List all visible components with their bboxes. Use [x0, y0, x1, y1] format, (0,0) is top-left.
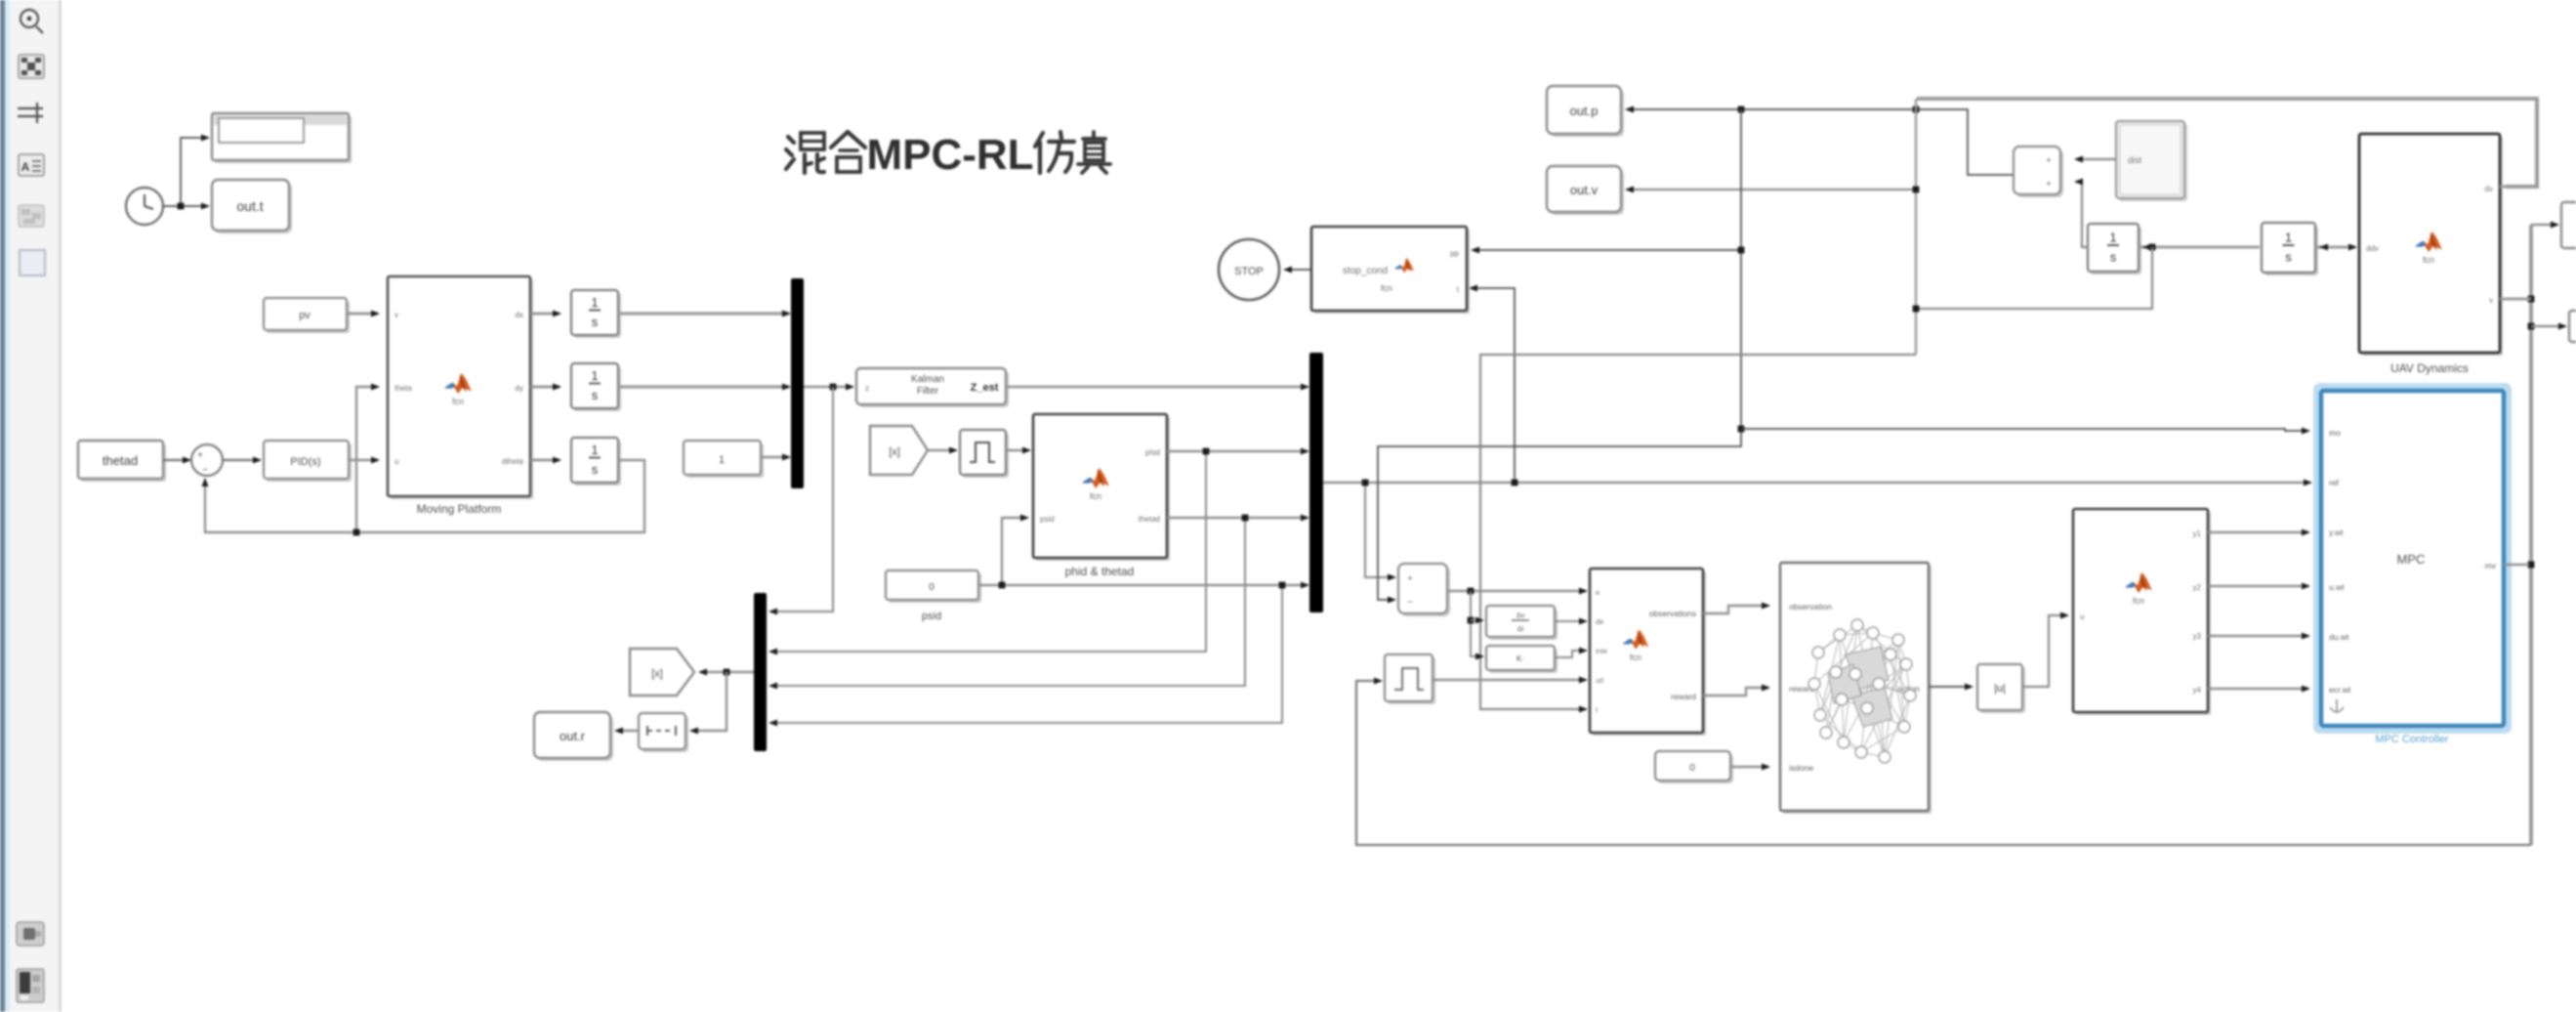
wire clock branch to display [181, 138, 208, 206]
svg-text:isdone: isdone [1789, 763, 1813, 773]
saturation block [963, 433, 1009, 478]
svg-text:u: u [2080, 612, 2084, 621]
wire t line to observations [1480, 355, 1916, 709]
svg-text:1: 1 [591, 295, 598, 310]
partial block right edge B [2569, 311, 2576, 342]
svg-text:fcn: fcn [2423, 255, 2434, 265]
svg-text:fcn: fcn [1090, 491, 1101, 501]
wire reward to agent [1703, 688, 1768, 696]
svg-text:Δt: Δt [1517, 626, 1524, 633]
svg-text:s: s [592, 388, 599, 402]
wire sum to PID [223, 459, 260, 461]
svg-text:Filter: Filter [917, 386, 939, 397]
svg-text:mv: mv [2485, 561, 2497, 570]
subsystem Moving Platform [391, 279, 533, 499]
wire junction down-left line [1916, 247, 2152, 309]
svg-text:u: u [395, 457, 398, 466]
wire y3 to MPC [2208, 635, 2308, 637]
outport out.p [1550, 89, 1624, 137]
svg-text:STOP: STOP [1234, 266, 1264, 277]
rate block dashes [642, 716, 688, 752]
integrator dx [574, 293, 621, 338]
wire PID to platform [349, 459, 378, 461]
wire y1 to MPC [2208, 531, 2308, 533]
wire observations to agent [1703, 606, 1768, 613]
svg-text:reward: reward [1671, 692, 1696, 701]
svg-text:Z_est: Z_est [971, 382, 999, 394]
toolbar icon disabled [19, 205, 44, 227]
wire right vertical net [2529, 225, 2533, 845]
svg-text:dtheta: dtheta [502, 457, 524, 466]
svg-text:PID(s): PID(s) [290, 456, 320, 468]
svg-text:+: + [2046, 155, 2051, 165]
svg-text:du.wt: du.wt [2329, 632, 2349, 642]
svg-text:observations: observations [1649, 609, 1696, 618]
toolbar icon square [20, 250, 45, 275]
toolbar icon zoom [21, 10, 43, 33]
svg-text:y2: y2 [2193, 583, 2202, 592]
svg-text:+: + [197, 450, 203, 461]
wire z branch to flipped mux [770, 387, 833, 611]
vertical 1962 line [1915, 99, 1917, 355]
svg-text:K·: K· [1517, 654, 1524, 663]
wire theta feedback loop [205, 460, 644, 532]
neural network doodle [1814, 625, 1910, 757]
wire sum2 to observations [1447, 590, 1586, 592]
svg-text:phid & thetad: phid & thetad [1065, 565, 1135, 578]
svg-text:phid: phid [1145, 448, 1160, 457]
wire abs to y fcn [2022, 615, 2067, 687]
wire pp input line [1473, 249, 1741, 251]
sum junction circle [191, 444, 223, 476]
svg-text:Moving Platform: Moving Platform [417, 502, 502, 516]
svg-text:Δu: Δu [1517, 612, 1525, 619]
svg-text:u.wt: u.wt [2329, 582, 2345, 592]
svg-text:ref: ref [2329, 478, 2340, 487]
wire thetad out to big mux [1167, 517, 1308, 519]
svg-text:1: 1 [2285, 231, 2292, 245]
svg-text:MPC: MPC [2397, 552, 2426, 567]
svg-text:1: 1 [2109, 231, 2116, 245]
toolbar bottom icon 2 [17, 969, 44, 1002]
wire to out.v [1627, 189, 1916, 190]
wire clock to out.t [163, 205, 208, 207]
wire integrator dx to mux [618, 312, 789, 315]
svg-text:v: v [395, 311, 398, 319]
svg-text:ddv: ddv [2366, 244, 2379, 253]
MATLAB function stop_cond [1314, 230, 1470, 314]
title annotation [786, 133, 824, 173]
display block [215, 116, 352, 163]
MATLAB function UAV Dynamics [2362, 137, 2503, 356]
wire agent action to abs [1929, 686, 1972, 688]
vertical line 1783 [1378, 109, 1741, 600]
wire saturation to fcn [1006, 449, 1029, 451]
disturbance source block [2119, 124, 2187, 201]
constant pv [267, 301, 350, 333]
wire to right edge block A [2531, 224, 2557, 226]
svg-text:ecr.wt: ecr.wt [2329, 685, 2351, 695]
svg-text:1: 1 [719, 454, 725, 466]
wire dy to integrator [530, 386, 560, 389]
svg-text:+: + [1407, 573, 1412, 583]
clock block [126, 188, 163, 225]
memory block [1388, 657, 1435, 704]
svg-text:s: s [592, 315, 599, 329]
RL agent block [1783, 566, 1932, 814]
MATLAB function weights [2076, 512, 2211, 715]
wire mux2 output ref line [1323, 482, 2310, 485]
wire pv to platform [347, 313, 378, 316]
wire integrator1 to sum [2076, 182, 2088, 247]
derivative block [1489, 609, 1558, 640]
svg-text:s: s [592, 462, 599, 477]
wire dx to integrator [530, 313, 560, 316]
svg-text:z: z [865, 384, 869, 393]
Kalman Filter block [859, 371, 1009, 407]
svg-text:v: v [2489, 296, 2493, 305]
svg-text:+: + [2046, 179, 2051, 189]
integrator dy [574, 366, 621, 411]
constant psid 0 [889, 573, 981, 603]
wire dtheta to integrator [530, 459, 560, 462]
svg-text:observation: observation [1789, 602, 1832, 611]
svg-text:fcn: fcn [1381, 283, 1392, 293]
wire phid out to big mux [1167, 450, 1308, 452]
constant isdone 0 [1658, 754, 1733, 783]
MPC Controller block [2316, 386, 2509, 731]
wire branch up to stop_cond t [1471, 288, 1515, 483]
svg-text:thetad: thetad [103, 453, 138, 468]
wire mv output [2504, 564, 2529, 567]
integrator feedback 1 [2091, 227, 2141, 274]
wire derivative to observations [1555, 620, 1586, 622]
outport out.t [215, 183, 292, 233]
wire psid to fcn and big mux [978, 584, 1308, 586]
svg-text:0: 0 [929, 582, 935, 593]
svg-text:y1: y1 [2193, 529, 2202, 538]
svg-text:u0: u0 [1596, 676, 1603, 685]
wire constant 1 to mux [761, 456, 789, 458]
svg-text:−: − [202, 465, 208, 476]
svg-text:fcn: fcn [2133, 596, 2144, 606]
wire between integrators [2139, 246, 2260, 249]
outport out.v [1550, 169, 1624, 215]
sum block 2 [1401, 567, 1450, 616]
constant 1 [686, 443, 764, 478]
wire branch to derivative [1471, 591, 1476, 656]
wire from tag to saturation [928, 449, 956, 451]
svg-text:thetad: thetad [1139, 515, 1160, 524]
svg-text:fcn: fcn [452, 397, 464, 406]
integrator dtheta [574, 441, 621, 485]
inport thetad [81, 443, 166, 482]
partial block right edge A [2561, 202, 2576, 248]
goto tag x flipped [630, 649, 694, 696]
wire bottom feedback line [1356, 681, 2531, 845]
wire integrator2 to UAV ddv [2315, 246, 2355, 249]
wire stop_cond to STOP [1285, 269, 1311, 271]
wire thetad branch to flipped mux [770, 518, 1245, 686]
wire phid branch to flipped mux [770, 451, 1206, 652]
MATLAB function phid thetad [1036, 417, 1170, 561]
svg-text:s: s [2110, 250, 2117, 265]
abs block [1980, 667, 2025, 713]
wire mo line to MPC [1741, 429, 2308, 431]
svg-text:Kalman: Kalman [911, 374, 944, 385]
svg-text:theta: theta [395, 384, 412, 393]
svg-text:MPC-RL: MPC-RL [866, 131, 1033, 179]
wire psid branch to flipped mux [770, 585, 1282, 723]
wire thetad to sum [163, 459, 189, 461]
wire to right edge block B [2531, 325, 2565, 327]
wire y2 to MPC [2208, 585, 2308, 587]
svg-text:dx: dx [516, 311, 523, 319]
svg-text:s: s [2285, 250, 2292, 265]
wire v output [2500, 298, 2531, 301]
svg-text:inte: inte [1596, 647, 1607, 655]
svg-text:0: 0 [1689, 763, 1695, 774]
svg-text:e: e [1596, 588, 1600, 597]
svg-text:psid: psid [1040, 515, 1055, 524]
svg-text:de: de [1596, 617, 1603, 626]
wire flipped mux output to goto [700, 671, 754, 673]
svg-text:y3: y3 [2193, 632, 2202, 641]
wire branch to sum2 input1 [1365, 483, 1394, 577]
svg-text:out.v: out.v [1570, 183, 1599, 197]
svg-text:1: 1 [591, 443, 598, 457]
wire sum output to out.p [1627, 109, 2014, 175]
wire memory to observations u0 [1433, 679, 1586, 681]
svg-text:MPC Controller: MPC Controller [2375, 734, 2449, 745]
wire Kalman output to big mux [1006, 386, 1308, 389]
svg-text:[x]: [x] [889, 446, 900, 458]
MATLAB function observations [1593, 571, 1706, 736]
svg-text:[x]: [x] [651, 668, 663, 680]
wire isdone [1730, 766, 1768, 768]
svg-text:out.p: out.p [1570, 104, 1599, 118]
wire gain to observations [1555, 651, 1586, 657]
svg-text:psid: psid [922, 611, 941, 622]
svg-text:dv: dv [2485, 185, 2493, 193]
svg-text:−: − [1407, 597, 1412, 607]
svg-text:dy: dy [516, 384, 523, 393]
svg-text:out.r: out.r [560, 729, 586, 743]
svg-text:mo: mo [2329, 428, 2341, 438]
wire dist to sum [2076, 158, 2116, 160]
from tag x [870, 426, 928, 475]
wire top feedback line [1917, 99, 2537, 187]
toolbar icon arrows [18, 103, 43, 123]
wire rate block to out.r [616, 730, 639, 732]
toolbar icon annotation [19, 154, 44, 176]
mux vertical bar 1 [791, 278, 804, 488]
svg-text:out.t: out.t [236, 198, 263, 214]
svg-text:UAV Dynamics: UAV Dynamics [2390, 361, 2469, 375]
wire theta branch to platform input [356, 387, 378, 532]
left palette toolbar [0, 0, 5, 1012]
svg-text:pv: pv [299, 310, 311, 321]
stop simulation block [1219, 239, 1279, 300]
toolbar bottom icon 1 [17, 922, 44, 946]
svg-text:y4: y4 [2193, 686, 2202, 695]
svg-text:y.wt: y.wt [2329, 527, 2344, 537]
toolbar icon fit-to-view [19, 55, 44, 78]
svg-text:A: A [21, 160, 30, 174]
svg-text:fcn: fcn [1630, 653, 1641, 662]
wire integrator dy to mux [618, 385, 789, 388]
gain block [1489, 649, 1558, 673]
wire y4 to MPC [2208, 688, 2308, 690]
integrator feedback 2 [2264, 226, 2318, 275]
wire dv output [2500, 186, 2537, 189]
wire mux to Kalman [804, 386, 852, 389]
svg-text:pp: pp [1450, 249, 1459, 258]
mux vertical bar flipped [754, 593, 767, 751]
svg-text:|u|: |u| [1994, 683, 2006, 695]
mux vertical bar 2 [1309, 353, 1323, 612]
svg-text:stop_cond: stop_cond [1343, 266, 1388, 276]
wire mux branch to rate block [691, 672, 727, 731]
outport out.r [537, 715, 613, 761]
flipped sum block [2016, 149, 2063, 197]
svg-text:dist: dist [2128, 155, 2142, 165]
svg-text:1: 1 [591, 368, 598, 383]
PID controller block [267, 443, 352, 482]
